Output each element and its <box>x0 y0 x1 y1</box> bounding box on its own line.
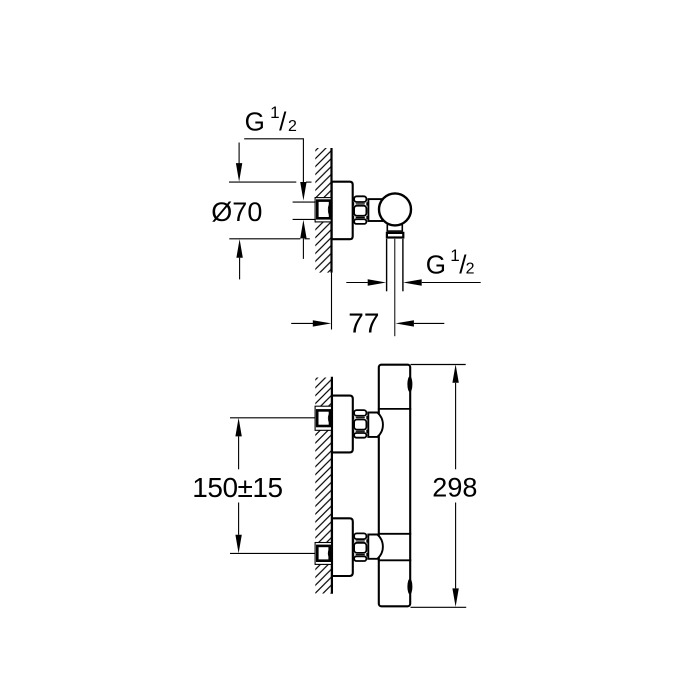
dimension G1/2 (top label) text <box>245 103 297 136</box>
upper wall square nut (front view, thick) <box>317 410 330 426</box>
upper mounting screw head <box>407 376 412 392</box>
wall hatching (side view) <box>315 148 331 273</box>
upper union boss (D-shape) <box>368 413 383 437</box>
dimension G1/2 top: bracket line <box>244 139 303 183</box>
svg-text:/: / <box>279 107 287 137</box>
arrowhead left to pipe centerline <box>395 320 414 326</box>
arrowhead right to pipe left edge <box>368 279 387 285</box>
lower inlet flange thin outline <box>315 543 332 565</box>
arrowhead up (298 top) <box>452 364 458 383</box>
arrowhead down (150±15 bottom) <box>235 535 241 554</box>
svg-text:Ø70: Ø70 <box>211 197 262 227</box>
extension line dash escutcheon bottom <box>305 238 310 240</box>
arrowhead up (150±15 top) <box>235 418 241 437</box>
escutcheon (side view) <box>332 182 353 240</box>
svg-text:77: 77 <box>348 307 379 338</box>
298 dimension line lower segment <box>455 503 457 589</box>
svg-text:298: 298 <box>432 472 477 502</box>
dimension 150±15: lower extension line <box>230 552 316 554</box>
extension line escutcheon top <box>229 181 296 183</box>
lower mounting screw head <box>407 579 412 595</box>
inlet flange thin outline behind square nipple <box>315 198 331 222</box>
arrowhead right to wall line <box>313 320 332 326</box>
wall line thin extension down to 77 dimension <box>331 273 333 330</box>
tail below up-arrow <box>302 238 304 259</box>
small arc inside nipple <box>328 204 329 215</box>
hose collar ring <box>387 233 403 238</box>
outlet pipe left edge <box>386 239 388 291</box>
arrowhead left to pipe right edge <box>403 279 422 285</box>
arc inside upper square <box>328 414 329 423</box>
inlet square nipple (side view, thick) <box>317 201 330 219</box>
arrowhead down to nipple top <box>300 182 306 201</box>
arrowhead down (298 bottom) <box>452 588 458 607</box>
mixer body bar <box>379 365 410 607</box>
dimension Ø70: upper vertical line <box>238 143 240 164</box>
upper union nut (front view) <box>354 410 368 438</box>
leader line top of nipple <box>293 201 316 203</box>
extension line dash beyond arrow <box>306 181 312 183</box>
extension line escutcheon bottom <box>229 238 300 240</box>
body seam above lower union <box>378 533 411 535</box>
upper inlet flange thin outline <box>315 406 332 430</box>
G1/2 right: left tail line <box>346 282 368 284</box>
svg-text:150±15: 150±15 <box>192 472 282 503</box>
outlet pipe right edge <box>402 239 404 291</box>
dimension 77: right tail line <box>414 322 444 324</box>
svg-text:G: G <box>426 249 446 279</box>
dimension line lower segment <box>238 503 240 535</box>
lower escutcheon (front view) <box>332 518 353 576</box>
upper escutcheon (front view) <box>332 396 353 453</box>
body seam above upper union <box>378 408 411 410</box>
valve body (side view) <box>368 199 382 221</box>
body seam below lower union <box>378 559 411 561</box>
dimension 298: top extension line <box>411 364 466 366</box>
svg-text:G: G <box>245 107 265 137</box>
wall hatching (front view) <box>315 378 332 594</box>
leader line bottom of nipple <box>293 218 316 220</box>
tail below Ø70 up-arrow <box>239 258 241 280</box>
dimension line upper segment <box>238 436 240 469</box>
svg-text:2: 2 <box>466 260 475 277</box>
arrowhead up to nipple bottom <box>300 220 306 239</box>
lower union boss (D-shape) <box>368 535 383 559</box>
lower wall square nut (front view, thick) <box>317 546 329 561</box>
arrowhead down to escutcheon top extension <box>236 163 242 182</box>
dimension 298: bottom extension line <box>411 606 467 608</box>
arc inside lower square <box>328 549 329 558</box>
dimension 150±15: upper extension line <box>230 417 316 419</box>
dimension G1/2 (right label) text <box>426 246 475 279</box>
G1/2 right: right tail line <box>422 282 481 284</box>
dimension 77: left tail line <box>291 322 313 324</box>
svg-text:2: 2 <box>288 118 297 135</box>
298 dimension line upper segment <box>455 383 457 470</box>
union nut (side view) <box>354 196 368 224</box>
pipe centerline <box>394 239 396 336</box>
wall surface line (side view) <box>330 148 332 273</box>
knob circle (thermostat handle, side view) <box>379 193 411 225</box>
neck below knob <box>387 224 402 232</box>
wall surface line (front view) <box>331 377 333 594</box>
lower union nut (front view) <box>354 533 368 561</box>
arrowhead up to escutcheon bottom extension <box>236 239 242 258</box>
